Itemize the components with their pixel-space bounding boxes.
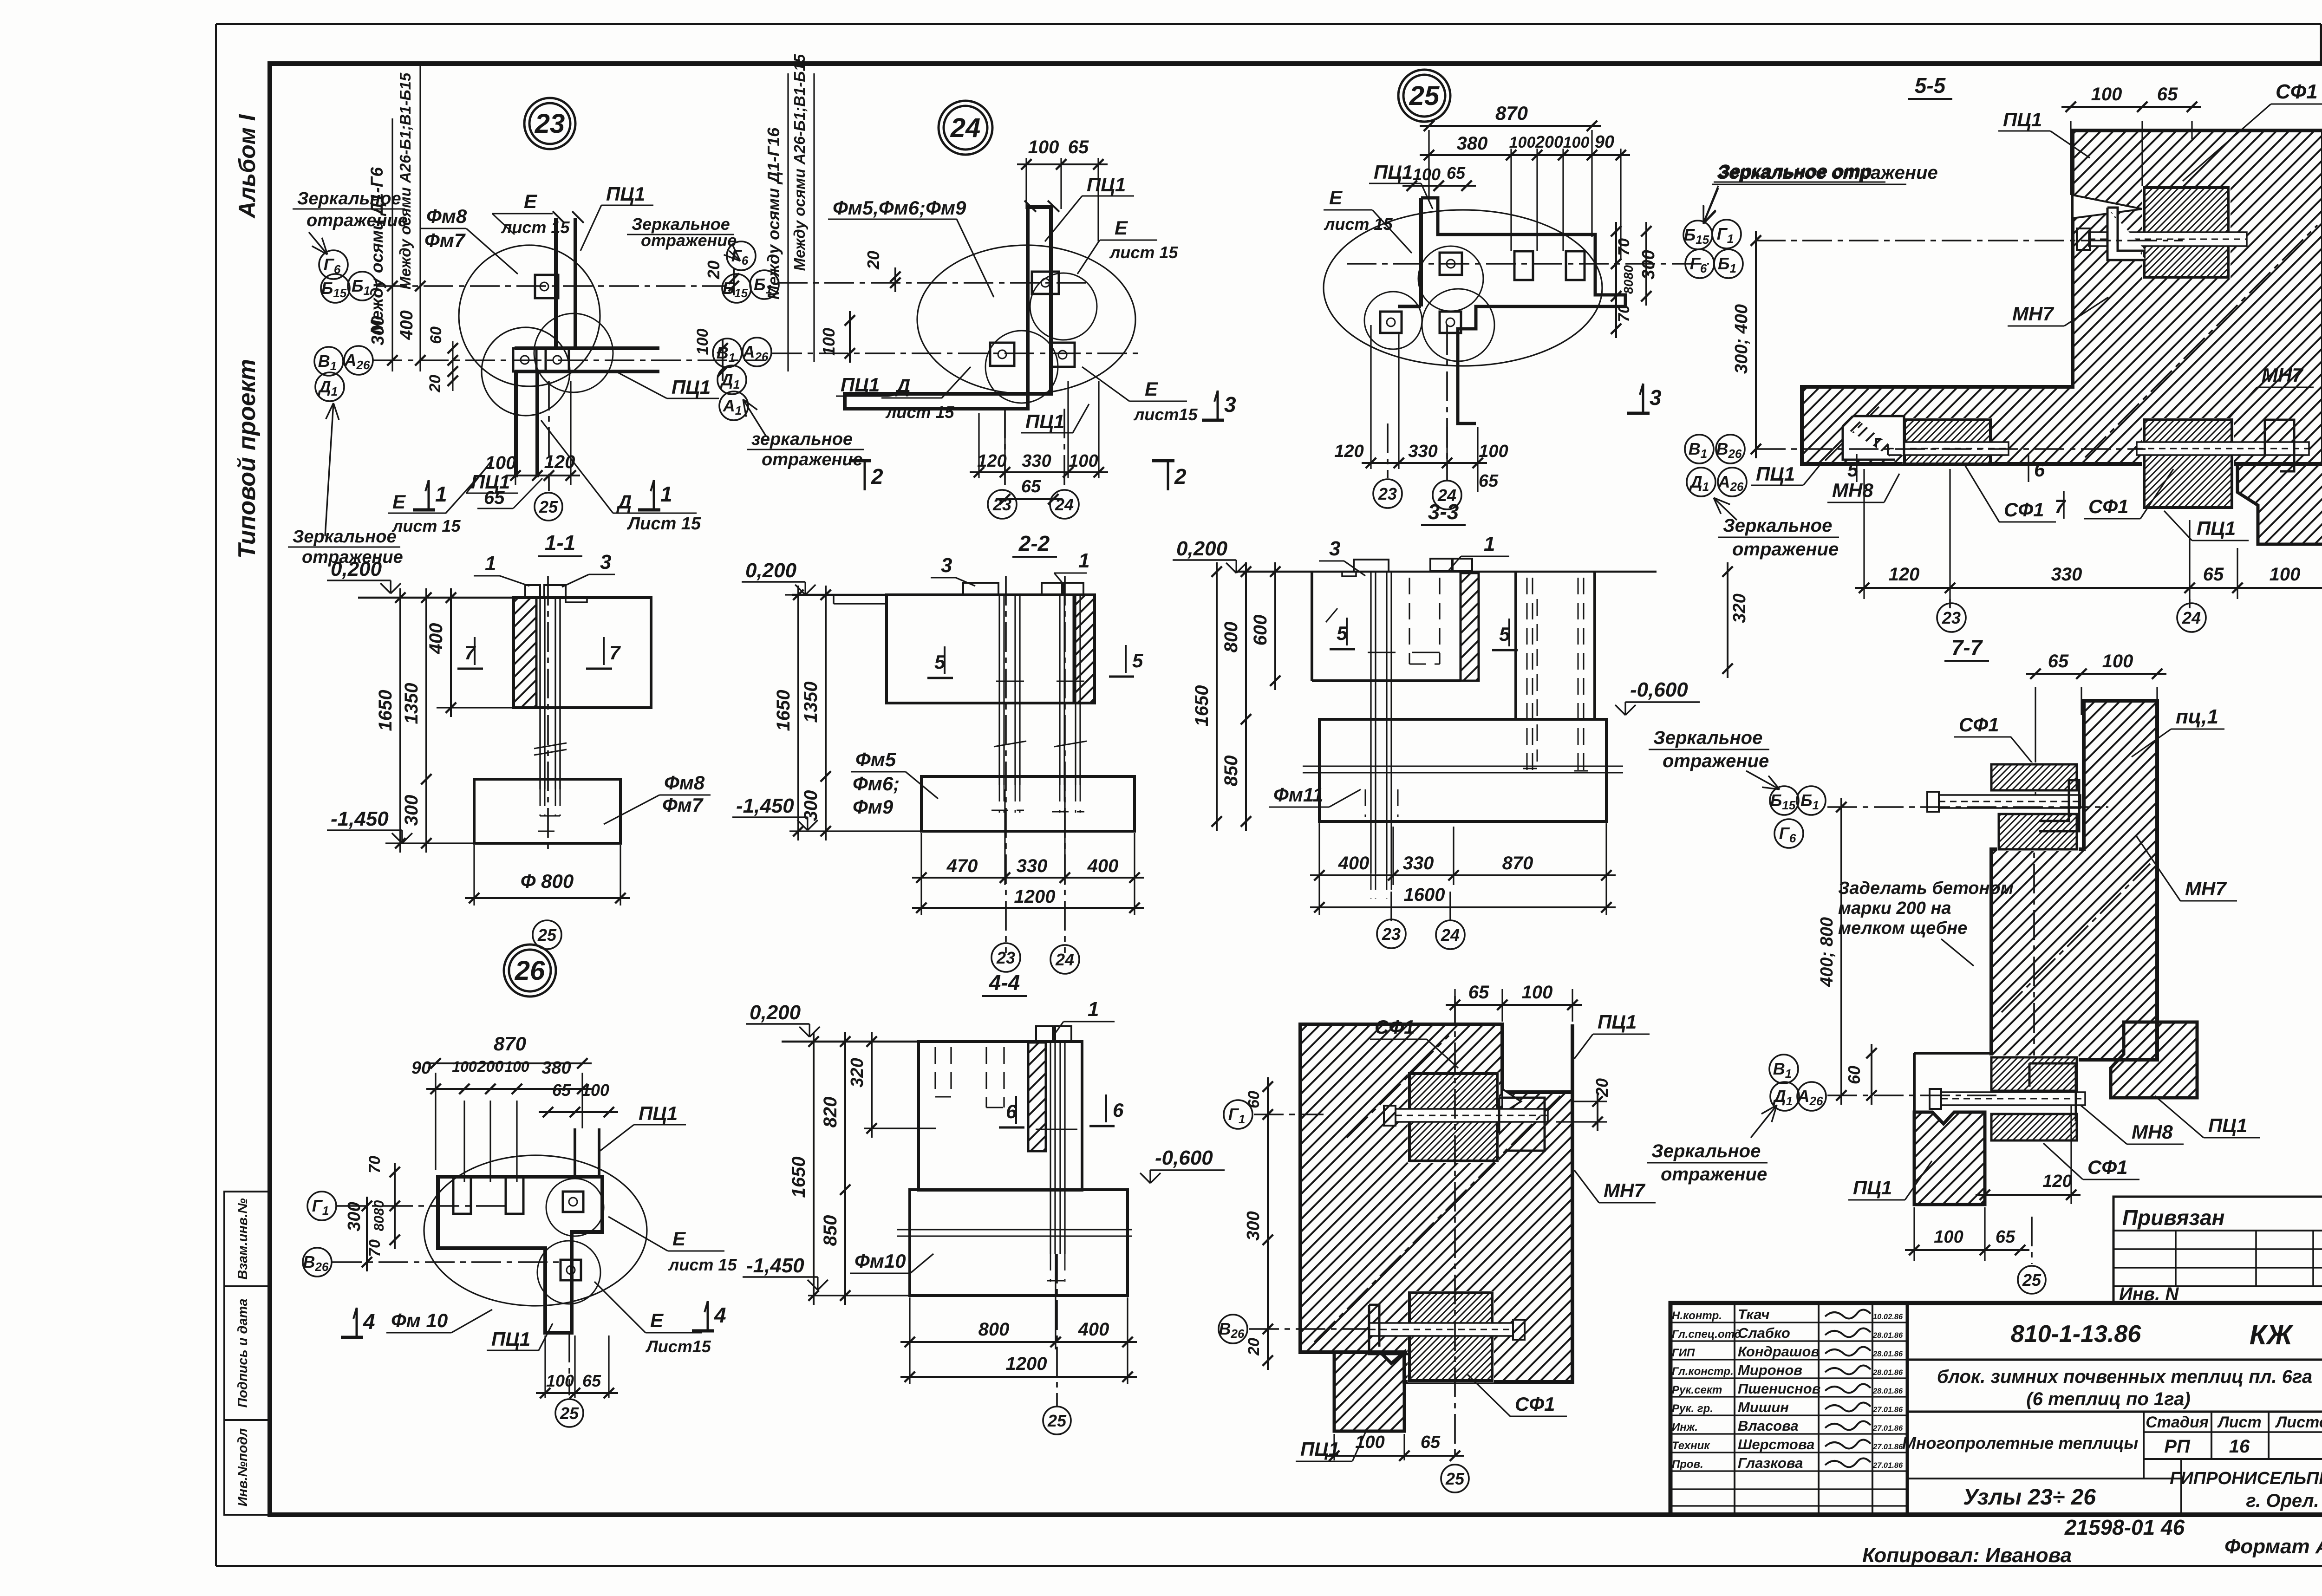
title block main frame (1670, 1303, 2322, 1515)
section 6-6 dim 20 right (1597, 1092, 1598, 1131)
node 26 small circle right (546, 1179, 604, 1236)
section 2-2 anchor bolts (998, 595, 1000, 785)
svg-text:ПЦ1: ПЦ1 (1756, 463, 1795, 485)
section 6-6 lower hook (1369, 1305, 1409, 1354)
svg-text:60: 60 (1845, 1066, 1864, 1084)
svg-text:Рук.сект: Рук.сект (1672, 1384, 1722, 1396)
svg-text:Фм7: Фм7 (662, 794, 704, 816)
svg-text:870: 870 (494, 1033, 526, 1055)
section 1-1 ground line (358, 597, 651, 599)
svg-text:850: 850 (1221, 756, 1241, 787)
node 24 section marks 2 (849, 459, 871, 463)
svg-text:Шерстова: Шерстова (1738, 1436, 1814, 1453)
svg-text:2: 2 (871, 464, 883, 489)
svg-text:1-1: 1-1 (545, 531, 575, 555)
svg-text:Н.контр.: Н.контр. (1672, 1309, 1722, 1322)
section 4-4 top plates (1036, 1026, 1053, 1042)
section 4-4 ground line (782, 1041, 1082, 1043)
svg-text:1350: 1350 (801, 682, 821, 723)
svg-text:300: 300 (801, 790, 821, 821)
section 3-3 dim 320 (1727, 562, 1728, 678)
section 1-1 pillar hatch (514, 598, 536, 708)
section 7-7 bottom dims (1913, 1207, 1915, 1261)
svg-text:330: 330 (1403, 853, 1434, 873)
svg-text:2: 2 (1174, 464, 1187, 489)
section 5-5 centerline В (1756, 448, 2146, 450)
section 4-4 bottom dims (909, 1297, 910, 1384)
svg-text:Техник: Техник (1672, 1440, 1710, 1452)
section 3-3 break tick (1326, 608, 1337, 622)
svg-text:Фм 10: Фм 10 (391, 1309, 448, 1331)
left margin table (224, 1192, 268, 1515)
section 2-2 vertical dims (785, 594, 887, 595)
svg-text:ПЦ1: ПЦ1 (1087, 174, 1126, 195)
svg-text:23: 23 (1382, 925, 1401, 944)
svg-text:3: 3 (1329, 537, 1340, 560)
svg-text:65: 65 (1479, 471, 1499, 491)
svg-text:65: 65 (582, 1371, 601, 1390)
section 5-5 axis bubbles top (1683, 221, 1712, 249)
svg-text:820: 820 (820, 1097, 841, 1128)
svg-text:380: 380 (541, 1058, 571, 1078)
svg-text:600: 600 (1250, 615, 1271, 646)
section 7-7 left wall line (1913, 1053, 1916, 1205)
svg-text:0,200: 0,200 (745, 559, 797, 582)
svg-text:3: 3 (600, 551, 611, 573)
svg-text:Гл.спец.отд: Гл.спец.отд (1672, 1328, 1741, 1341)
section 7-7 top dims 65 100 (2035, 687, 2036, 799)
node 25 wall plan outline (1421, 198, 1625, 423)
node 23 detail circle big (459, 245, 600, 386)
section 7-7 dim 120 (1976, 1194, 2081, 1196)
svg-text:ПЦ1: ПЦ1 (2197, 517, 2236, 539)
svg-text:пц,1: пц,1 (2176, 705, 2218, 728)
node 26 dim row 90/100/200/100/380 (463, 1101, 465, 1182)
node 25 channel detail mid (1440, 312, 1461, 333)
section 3-3 hatch strip (1461, 573, 1479, 681)
svg-text:6: 6 (1113, 1099, 1124, 1121)
svg-text:850: 850 (820, 1215, 841, 1246)
section 5-5 concrete mass (1802, 130, 2322, 464)
svg-text:23: 23 (996, 948, 1015, 967)
svg-text:5: 5 (1132, 650, 1143, 671)
node 24 detail circle top (1030, 273, 1097, 340)
svg-text:Привязан: Привязан (2122, 1205, 2224, 1230)
svg-text:100: 100 (1355, 1433, 1384, 1452)
section 5-5 white notch top (2073, 195, 2142, 218)
node 25 dim 870 (1428, 130, 1429, 200)
section 7-7 axis bubble 25 (2031, 1217, 2033, 1264)
title block signature table columns (1734, 1303, 1735, 1515)
svg-text:СФ1: СФ1 (1515, 1393, 1555, 1415)
svg-text:Е: Е (1145, 378, 1159, 400)
section 6-6 diagonal axis in mass (1314, 1096, 1560, 1342)
section 7-7 assembly top bolt (1939, 795, 2081, 808)
svg-text:СФ1: СФ1 (2088, 495, 2128, 517)
svg-text:65: 65 (1996, 1227, 2015, 1247)
svg-text:Ф 800: Ф 800 (521, 870, 574, 892)
svg-text:8080: 8080 (1621, 265, 1636, 294)
svg-text:28.01.86: 28.01.86 (1872, 1331, 1903, 1340)
svg-text:(6 теплиц по 1га): (6 теплиц по 1га) (2026, 1389, 2190, 1409)
svg-text:300: 300 (1639, 250, 1658, 279)
svg-text:25: 25 (1047, 1411, 1067, 1430)
svg-text:Зеркальное: Зеркальное (297, 189, 401, 208)
section 5-5 diagonal axis in mass (2085, 225, 2317, 457)
section 6-6 white notch (1502, 1089, 1521, 1114)
section 5-5 bottom dims (1863, 469, 1865, 599)
svg-text:330: 330 (1408, 442, 1437, 461)
section 2-2 centerlines (1005, 576, 1007, 953)
section 5-5 assembly 1 plate white backing (2142, 186, 2231, 279)
section 2-2 bolt cross symbols (996, 681, 1024, 682)
svg-text:2-2: 2-2 (1018, 531, 1050, 555)
svg-text:65: 65 (1468, 982, 1489, 1003)
svg-text:Фм7: Фм7 (424, 229, 466, 251)
title block organization (2180, 1459, 2182, 1515)
svg-text:ПЦ1: ПЦ1 (672, 376, 711, 398)
svg-text:24: 24 (2182, 608, 2201, 627)
svg-text:400: 400 (1338, 853, 1370, 873)
node 23 channel detail bottom-left (513, 348, 536, 371)
section 5-5 assembly 2 bolt (1888, 442, 2009, 455)
section 6-6 upper hook (1499, 1098, 1545, 1151)
svg-text:65: 65 (2203, 564, 2224, 585)
section 5-5 assembly 2 hook (1843, 416, 1904, 460)
svg-text:870: 870 (1502, 853, 1533, 873)
svg-text:100: 100 (1563, 134, 1590, 151)
node 26 section marks 4 (341, 1336, 363, 1339)
svg-text:27.01.86: 27.01.86 (1872, 1406, 1903, 1414)
svg-text:Копировал: Иванова: Копировал: Иванова (1862, 1544, 2072, 1567)
section 5-5 bottom right block (2237, 464, 2322, 544)
svg-text:24: 24 (1055, 495, 1074, 514)
node 23 wall vertical strip (554, 218, 558, 348)
svg-text:65: 65 (2157, 84, 2178, 104)
section 7-7 left lower block (1914, 1112, 1985, 1205)
svg-text:Альбом I: Альбом I (234, 114, 260, 219)
svg-text:мелком щебне: мелком щебне (1838, 919, 1967, 938)
node 26 bottom axis bubble 25 (568, 1333, 570, 1395)
svg-text:100: 100 (2102, 651, 2133, 671)
svg-text:Фм8: Фм8 (426, 205, 467, 227)
node 24 top plate detail (1032, 272, 1059, 294)
node 26 bubble (504, 945, 556, 997)
svg-text:лист 15: лист 15 (501, 218, 570, 237)
svg-text:3: 3 (1224, 392, 1236, 417)
svg-text:330: 330 (1017, 856, 1048, 876)
node 26 channel detail right (563, 1192, 583, 1212)
section 7-7 main column (1991, 701, 2157, 1060)
svg-text:320: 320 (1730, 593, 1749, 623)
svg-text:Е: Е (1329, 187, 1343, 208)
svg-text:-0,600: -0,600 (1155, 1147, 1213, 1169)
node 24 centerline В-А (772, 352, 1138, 354)
svg-text:25: 25 (537, 925, 557, 945)
svg-text:100: 100 (819, 328, 838, 356)
section 2-2 anchor dashed boxes (991, 810, 1024, 811)
node 23 bubble (524, 98, 575, 149)
svg-text:27.01.86: 27.01.86 (1872, 1461, 1903, 1470)
section 7-7 lower hook (2029, 1063, 2076, 1121)
svg-text:25: 25 (539, 497, 558, 516)
svg-text:лист 15: лист 15 (1109, 243, 1178, 262)
svg-text:0,200: 0,200 (1176, 537, 1228, 560)
svg-text:-1,450: -1,450 (331, 808, 389, 830)
svg-text:Е: Е (672, 1228, 686, 1250)
section 2-2 top plates (963, 583, 998, 595)
node 24 channel detail bottom-right (1050, 343, 1075, 367)
section 6-6 lower bolt (1369, 1323, 1513, 1336)
section 3-3 ground line (1235, 571, 1657, 573)
svg-text:100: 100 (2270, 564, 2301, 585)
node 26 centerlines (337, 1205, 511, 1207)
section 3-3 left anchor bolts (1370, 572, 1371, 873)
svg-text:Глазкова: Глазкова (1738, 1455, 1803, 1471)
svg-text:лист15: лист15 (1133, 405, 1198, 424)
section 1-1 centerline (547, 576, 549, 850)
svg-text:100: 100 (1479, 442, 1508, 461)
title block stage grid (2143, 1412, 2145, 1479)
node 25 bubble (1398, 70, 1450, 122)
node 25 channel detail left (1380, 312, 1402, 333)
svg-text:Миронов: Миронов (1738, 1362, 1802, 1378)
svg-text:25: 25 (1409, 81, 1440, 111)
section 6-6 top dims 65 100 (1454, 989, 1455, 1022)
svg-text:200: 200 (477, 1058, 504, 1075)
svg-text:1600: 1600 (1404, 885, 1445, 905)
svg-text:65: 65 (552, 1081, 571, 1100)
svg-text:1650: 1650 (1192, 685, 1212, 727)
svg-text:Лист 15: Лист 15 (626, 514, 701, 534)
svg-text:100: 100 (452, 1058, 477, 1075)
section 3-3 bottom dims (1318, 823, 1320, 915)
section 4-4 foundation (910, 1190, 1128, 1296)
svg-text:МН8: МН8 (2132, 1121, 2173, 1143)
svg-text:ПЦ1: ПЦ1 (841, 374, 880, 396)
svg-text:20: 20 (704, 261, 723, 280)
svg-text:65: 65 (1021, 477, 1041, 496)
node 23 axis line А26-Б1 with label (419, 66, 421, 371)
svg-text:Зеркальное: Зеркальное (293, 527, 397, 547)
svg-text:70: 70 (366, 1156, 384, 1173)
node 25 section marks 3 (1202, 419, 1224, 422)
svg-text:зеркальное: зеркальное (751, 430, 853, 449)
svg-text:Фм5,Фм6;Фм9: Фм5,Фм6;Фм9 (833, 197, 966, 219)
svg-text:7-7: 7-7 (1951, 635, 1983, 659)
svg-text:СФ1: СФ1 (1959, 714, 1999, 736)
svg-text:870: 870 (1495, 102, 1528, 124)
node 26 channel detail lower (561, 1260, 581, 1280)
svg-text:300: 300 (345, 1202, 364, 1231)
svg-text:330: 330 (1022, 451, 1051, 471)
svg-text:120: 120 (977, 451, 1006, 471)
section 1-1 anchor bolts (539, 598, 541, 789)
svg-text:лист 15: лист 15 (391, 516, 461, 535)
node 24 wall plan outline (845, 207, 1051, 409)
sheet number box 45 (2320, 24, 2322, 64)
svg-text:Подпись и дата: Подпись и дата (235, 1298, 250, 1407)
node 24 top dims 100 65 (1025, 158, 1027, 209)
svg-text:23: 23 (535, 109, 565, 139)
svg-text:24: 24 (1055, 950, 1074, 969)
svg-text:0,200: 0,200 (331, 558, 382, 580)
node 25 bottom axis bubbles (1387, 423, 1389, 478)
svg-text:Рук. гр.: Рук. гр. (1672, 1402, 1713, 1415)
svg-text:Фм10: Фм10 (854, 1250, 906, 1272)
svg-text:60: 60 (1245, 1091, 1263, 1108)
section 1-1 top plates (525, 585, 540, 598)
node 25 right dims 70/80/80/300/70 (1615, 222, 1617, 338)
svg-text:МН7: МН7 (2262, 364, 2303, 386)
section 5-5 axis bubbles bottom (1685, 435, 1714, 463)
svg-text:1650: 1650 (375, 690, 396, 731)
svg-text:Власова: Власова (1738, 1418, 1799, 1434)
node 23 channel detail bottom-right (546, 348, 569, 371)
svg-text:65: 65 (2048, 651, 2069, 671)
node 26 wall plan outline (438, 1177, 602, 1333)
section 5-5 centerline Б (1756, 240, 2183, 241)
svg-text:25: 25 (2022, 1270, 2042, 1290)
node 26 wall stub top (574, 1128, 576, 1177)
title block signatures squiggles (1825, 1309, 1871, 1318)
svg-text:300: 300 (401, 795, 422, 826)
svg-text:27.01.86: 27.01.86 (1872, 1424, 1903, 1433)
svg-text:ПЦ1: ПЦ1 (1598, 1011, 1637, 1033)
svg-text:1650: 1650 (789, 1157, 809, 1198)
svg-text:Формат А2: Формат А2 (2224, 1535, 2322, 1558)
section 7-7 vertical dim 400 800 (1840, 798, 1842, 1105)
node 25 small circle top (1418, 246, 1483, 311)
svg-text:Листов: Листов (2275, 1414, 2322, 1431)
svg-text:27.01.86: 27.01.86 (1872, 1443, 1903, 1451)
node 25 centerline (1347, 263, 1709, 265)
section 1-1 pillar outline (514, 598, 651, 708)
svg-text:1: 1 (660, 482, 672, 506)
section 4-4 axis bubble 25 (1056, 1254, 1058, 1406)
svg-text:23: 23 (1378, 484, 1397, 503)
svg-text:20: 20 (864, 251, 883, 270)
svg-text:400: 400 (397, 310, 417, 340)
node 26 left dims rotated (394, 1163, 396, 1249)
svg-text:Д: Д (895, 375, 910, 397)
svg-text:70: 70 (1615, 238, 1633, 256)
section 5-5 vertical dim 300:400 (1755, 231, 1757, 458)
node 24 bottom dims (978, 413, 979, 478)
svg-text:90: 90 (1595, 132, 1614, 152)
section 3-3 foundation (1319, 719, 1606, 821)
section 7-7 column centerlines (2033, 817, 2035, 1063)
node 23 detail circle lower (482, 327, 570, 416)
svg-text:1200: 1200 (1006, 1354, 1047, 1374)
svg-text:65: 65 (1447, 163, 1466, 182)
svg-text:лист 15: лист 15 (885, 403, 954, 422)
svg-text:100: 100 (1934, 1227, 1963, 1247)
svg-text:марки 200 на: марки 200 на (1838, 899, 1951, 918)
svg-text:1: 1 (1078, 549, 1089, 572)
svg-text:300; 400: 300; 400 (1732, 304, 1751, 374)
node 24 detail circle bottom (985, 331, 1058, 403)
svg-text:МН8: МН8 (1832, 479, 1873, 501)
section 7-7 assembly top plates (1989, 762, 2079, 792)
svg-text:24: 24 (950, 113, 981, 143)
svg-text:Д: Д (616, 491, 632, 513)
svg-text:6: 6 (2034, 459, 2045, 481)
section 5-5 axis bubbles 23 24 (1949, 599, 1951, 608)
node 24 axis bubbles left (727, 241, 756, 270)
node 26 dim 870 (435, 1073, 436, 1170)
svg-text:ПЦ1: ПЦ1 (1374, 161, 1413, 183)
svg-text:5-5: 5-5 (1915, 73, 1946, 98)
node 24 axis line with label 2 (813, 73, 815, 362)
svg-text:28.01.86: 28.01.86 (1872, 1387, 1903, 1395)
section 6-6 bottom dims (1333, 1434, 1335, 1460)
node 25 stub rects (1514, 251, 1533, 280)
svg-text:Гл.констр.: Гл.констр. (1672, 1365, 1734, 1378)
node 23 bottom axis bubble 25 (548, 381, 550, 491)
svg-text:28.01.86: 28.01.86 (1872, 1350, 1903, 1358)
node 24 bottom axis bubbles (1004, 409, 1006, 488)
node 25 dim row 380/100/200/100/90 (1510, 149, 1512, 251)
svg-text:100: 100 (1069, 451, 1098, 471)
svg-text:16: 16 (2229, 1436, 2250, 1457)
svg-text:7: 7 (609, 642, 621, 664)
section 3-3 right column outline (1514, 572, 1517, 719)
svg-text:400; 800: 400; 800 (1817, 917, 1837, 987)
svg-text:Узлы 23÷ 26: Узлы 23÷ 26 (1963, 1485, 2096, 1510)
section 1-1 axis bubble 25 (533, 920, 561, 949)
section 6-6 centerline vertical (1454, 996, 1456, 1458)
svg-text:25: 25 (560, 1404, 579, 1423)
svg-text:Инж.: Инж. (1672, 1421, 1698, 1433)
section 2-2 ledge (833, 595, 835, 604)
section 6-6 left dims (1267, 1077, 1269, 1370)
section 6-6 axis bubble 25 (1441, 1465, 1469, 1492)
svg-text:Стадия: Стадия (2146, 1414, 2209, 1431)
node 25 small circle left (1364, 292, 1422, 349)
svg-text:ПЦ1: ПЦ1 (1025, 410, 1064, 432)
svg-text:-1,450: -1,450 (746, 1254, 804, 1277)
svg-text:МН7: МН7 (2012, 303, 2054, 325)
svg-text:ПЦ1: ПЦ1 (1853, 1177, 1892, 1199)
node 25 bottom dims (1370, 325, 1371, 469)
svg-text:г. Орел.: г. Орел. (2246, 1491, 2319, 1511)
svg-text:60: 60 (427, 326, 445, 344)
svg-text:20: 20 (1592, 1078, 1611, 1097)
node 26 hanging stubs (453, 1177, 471, 1214)
svg-text:-1,450: -1,450 (736, 795, 794, 817)
svg-text:100: 100 (694, 329, 711, 355)
section 5-5 assembly 3 plate (2142, 418, 2234, 509)
svg-text:400: 400 (1078, 1319, 1109, 1340)
section 3-3 axis bubbles right (1770, 786, 1799, 815)
svg-text:400: 400 (426, 623, 446, 655)
svg-text:ПЦ1: ПЦ1 (2208, 1114, 2247, 1136)
svg-text:отражение: отражение (1661, 1164, 1767, 1185)
svg-text:8080: 8080 (372, 1200, 387, 1231)
svg-text:25: 25 (1445, 1469, 1465, 1488)
svg-text:65: 65 (484, 488, 505, 508)
section 3-3 axis bubbles bottom (1377, 919, 1406, 948)
section 6-6 concrete mass (1300, 1024, 1572, 1382)
svg-text:300: 300 (1244, 1211, 1263, 1240)
svg-text:Типовой проект: Типовой проект (234, 359, 261, 559)
svg-text:Между осями А26-Б1;В1-Б15: Между осями А26-Б1;В1-Б15 (397, 72, 414, 289)
svg-text:Зеркальное отражение: Зеркальное отражение (1717, 163, 1938, 183)
svg-text:21598-01 46: 21598-01 46 (2064, 1515, 2185, 1539)
svg-text:3-3: 3-3 (1428, 500, 1459, 524)
section 1-1 vertical dims (372, 597, 514, 598)
